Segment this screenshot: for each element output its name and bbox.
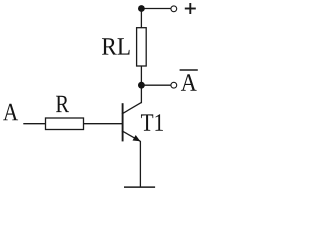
collector diagonal bbox=[122, 103, 141, 114]
ground bbox=[124, 186, 155, 188]
terminal A-bar (open circle) bbox=[171, 82, 177, 88]
resistor RL bbox=[137, 28, 147, 66]
label T1 bbox=[141, 114, 163, 131]
wire emitter down bbox=[139, 141, 141, 187]
label RL bbox=[102, 38, 130, 54]
emitter diagonal bbox=[122, 131, 140, 142]
terminal + (open circle) bbox=[171, 6, 177, 12]
emitter arrowhead bbox=[133, 135, 141, 141]
wire R to base bbox=[84, 123, 123, 125]
wire output node to terminal bbox=[141, 84, 170, 86]
wire input A to R bbox=[23, 123, 45, 125]
junction dot output node A-bar bbox=[138, 82, 145, 89]
wire supply node to RL bbox=[140, 9, 142, 29]
node label A (input) bbox=[3, 104, 18, 121]
wire top supply horizontal bbox=[141, 8, 170, 10]
junction dot top supply node bbox=[138, 5, 145, 12]
label + (supply polarity) bbox=[185, 3, 196, 14]
label R bbox=[56, 96, 69, 112]
node label A-bar bbox=[180, 70, 198, 91]
base bar bbox=[122, 103, 124, 141]
resistor R bbox=[46, 118, 84, 130]
transistor T1 bbox=[122, 103, 141, 142]
wire RL to collector bbox=[140, 66, 142, 103]
